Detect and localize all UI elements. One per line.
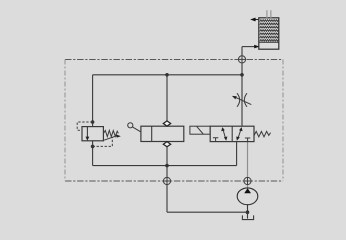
relief valve V1 spring [103, 130, 118, 136]
V2 left square flow arrow [221, 127, 227, 141]
hydraulic pump [237, 188, 258, 205]
port crossing top (circle on boundary) [238, 56, 245, 63]
port diamond bottom of V3 [163, 142, 170, 147]
enclosure boundary top edge [65, 59, 283, 61]
relief valve V1 drain line (dashed) [93, 137, 113, 146]
hand lever valve V3 body [141, 126, 184, 141]
wire pressure bus [93, 74, 242, 76]
heat exchanger outlet arrow (top left) [250, 18, 259, 22]
enclosure boundary right edge [282, 60, 284, 182]
tank [242, 215, 253, 219]
wire center valve top drop [166, 75, 168, 126]
wire heat exchanger feed [242, 46, 255, 48]
hand lever actuator [128, 123, 141, 132]
junction node relief pilot top [91, 120, 95, 124]
junction node collector [165, 164, 169, 168]
port crossing bottom left (circle on boundary) [163, 177, 170, 184]
V2 left square blocked port T [213, 138, 218, 141]
junction node bus/right column [240, 73, 244, 77]
wire relief valve top drop [92, 75, 94, 127]
port diamond top of V3 [163, 121, 170, 126]
V2 right square flow arrow [236, 127, 242, 141]
heat exchanger box [259, 18, 279, 49]
3/2 directional valve V2 body [210, 126, 254, 141]
heat exchanger bottom separator line [259, 41, 279, 43]
heat exchanger pipes (gray) [267, 10, 271, 18]
heat exchanger inlet arrowhead [254, 45, 259, 49]
junction node tank return [246, 210, 250, 214]
wire relief valve bottom [92, 141, 94, 166]
wire pump to tank [247, 205, 249, 219]
wire pump to valve (gray) [247, 142, 249, 188]
relief valve V1 adjustment arrow [104, 134, 121, 140]
wire right column through throttle [241, 47, 243, 127]
V2 right square blocked port T [245, 138, 250, 141]
port crossing bottom right (circle on boundary) [244, 177, 251, 184]
relief valve V1 pilot line (dashed) [77, 122, 92, 130]
adjustable throttle valve [232, 93, 251, 107]
enclosure boundary left edge [64, 60, 66, 182]
wire tank collector [93, 165, 237, 167]
V2 return spring [254, 131, 271, 136]
junction node bus/center valve [165, 73, 169, 77]
wire center valve bottom drop [166, 142, 168, 166]
solenoid coil of valve V2 [190, 126, 210, 134]
wire tank return horizontal [167, 211, 248, 213]
wire tank return vertical [166, 166, 168, 213]
heat exchanger coil rows [260, 20, 279, 22]
junction node relief drain bottom [91, 145, 95, 149]
enclosure boundary bottom edge [65, 180, 283, 182]
wire valve V2 bottom port drop [236, 142, 238, 166]
pressure relief valve V1 body [82, 127, 103, 141]
